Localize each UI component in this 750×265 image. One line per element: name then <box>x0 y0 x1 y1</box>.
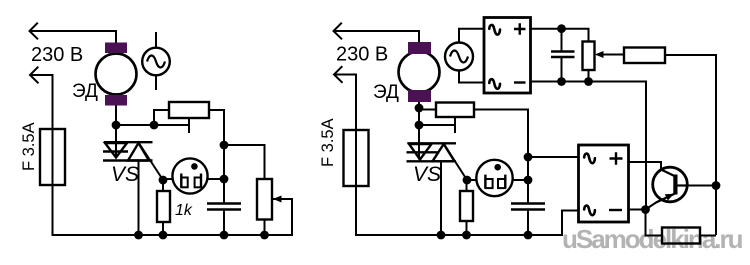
svg-text:F 3.5A: F 3.5A <box>319 118 337 167</box>
svg-text:ЭД: ЭД <box>373 82 399 103</box>
svg-text:230 В: 230 В <box>336 44 388 66</box>
svg-text:ЭД: ЭД <box>72 81 98 102</box>
svg-text:VS: VS <box>111 163 139 186</box>
svg-text:VS: VS <box>413 163 441 186</box>
svg-text:230 В: 230 В <box>31 44 83 66</box>
svg-text:F 3.5A: F 3.5A <box>20 122 38 171</box>
svg-text:1k: 1k <box>175 202 193 219</box>
